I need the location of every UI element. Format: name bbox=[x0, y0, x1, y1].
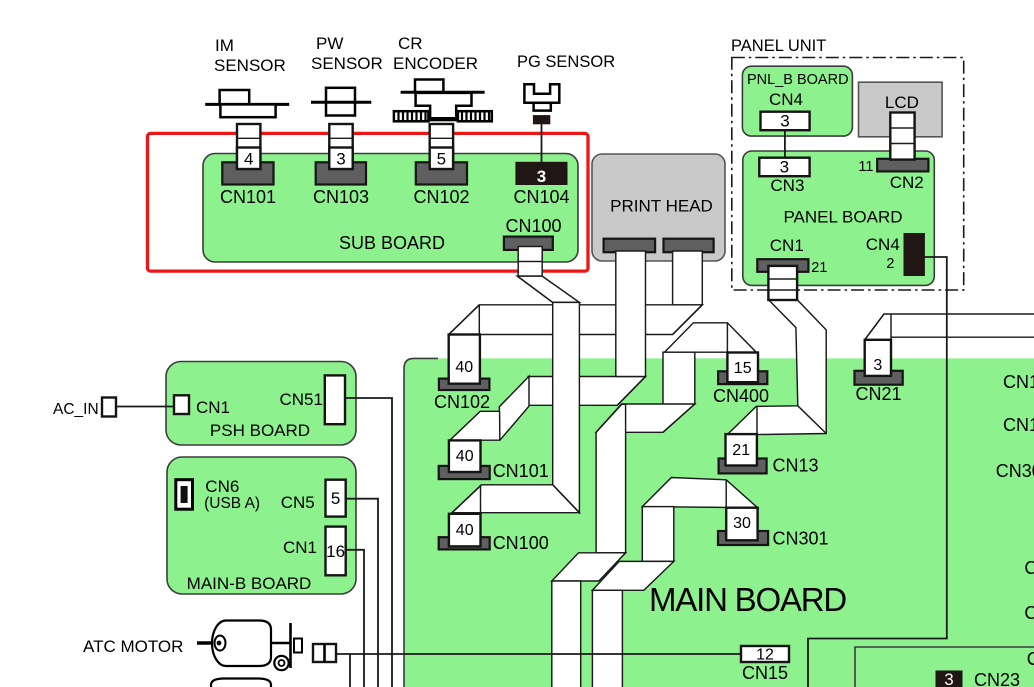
svg-text:PANEL BOARD: PANEL BOARD bbox=[783, 208, 902, 227]
svg-text:CN101: CN101 bbox=[220, 187, 276, 207]
svg-text:3: 3 bbox=[537, 167, 546, 186]
svg-text:CN400: CN400 bbox=[713, 386, 769, 406]
svg-text:40: 40 bbox=[456, 448, 474, 465]
svg-text:40: 40 bbox=[455, 359, 473, 376]
svg-text:CN102: CN102 bbox=[413, 187, 469, 207]
svg-text:12: 12 bbox=[756, 647, 774, 664]
svg-text:PSH BOARD: PSH BOARD bbox=[210, 421, 310, 440]
svg-text:MAIN BOARD: MAIN BOARD bbox=[649, 581, 846, 618]
svg-text:CN101: CN101 bbox=[493, 461, 549, 481]
svg-text:CN1: CN1 bbox=[1003, 372, 1034, 392]
svg-text:5: 5 bbox=[437, 150, 446, 169]
svg-text:3: 3 bbox=[336, 150, 345, 169]
svg-text:CN1: CN1 bbox=[283, 538, 317, 557]
svg-text:CN104: CN104 bbox=[513, 187, 569, 207]
svg-text:3: 3 bbox=[944, 670, 953, 687]
svg-text:SENSOR: SENSOR bbox=[311, 54, 383, 73]
svg-text:CN23: CN23 bbox=[974, 670, 1020, 687]
svg-text:ENCODER: ENCODER bbox=[393, 54, 478, 73]
svg-text:30: 30 bbox=[733, 515, 751, 532]
svg-text:MAIN-B BOARD: MAIN-B BOARD bbox=[187, 574, 312, 593]
svg-text:11: 11 bbox=[858, 159, 873, 175]
svg-text:CR: CR bbox=[398, 34, 423, 53]
svg-text:CN102: CN102 bbox=[434, 392, 490, 412]
svg-text:CN1: CN1 bbox=[196, 398, 230, 417]
svg-text:5: 5 bbox=[331, 489, 340, 508]
svg-text:PRINT HEAD: PRINT HEAD bbox=[610, 197, 713, 216]
svg-text:2: 2 bbox=[886, 256, 894, 272]
svg-text:16: 16 bbox=[326, 542, 345, 561]
svg-text:CN1: CN1 bbox=[770, 236, 804, 255]
svg-text:CN4: CN4 bbox=[866, 235, 900, 254]
svg-text:CN5: CN5 bbox=[281, 493, 315, 512]
svg-text:PG SENSOR: PG SENSOR bbox=[517, 53, 615, 71]
svg-text:CN3: CN3 bbox=[770, 176, 804, 195]
svg-text:PANEL UNIT: PANEL UNIT bbox=[731, 37, 826, 55]
svg-text:40: 40 bbox=[456, 522, 474, 539]
svg-text:C: C bbox=[1027, 649, 1034, 669]
svg-text:C: C bbox=[1024, 603, 1034, 623]
svg-text:CN301: CN301 bbox=[773, 529, 829, 549]
svg-text:CN100: CN100 bbox=[493, 533, 549, 553]
svg-text:CN2: CN2 bbox=[890, 173, 924, 192]
svg-text:CN21: CN21 bbox=[855, 384, 901, 404]
svg-text:CN51: CN51 bbox=[280, 390, 323, 409]
svg-text:CN6: CN6 bbox=[205, 477, 239, 496]
svg-text:CN1: CN1 bbox=[1003, 415, 1034, 435]
svg-text:3: 3 bbox=[873, 357, 882, 374]
svg-text:CN15: CN15 bbox=[742, 663, 788, 683]
svg-text:CN4: CN4 bbox=[769, 90, 803, 109]
svg-text:CN100: CN100 bbox=[505, 216, 561, 236]
svg-text:21: 21 bbox=[811, 260, 827, 276]
svg-text:3: 3 bbox=[780, 158, 789, 177]
svg-text:IM: IM bbox=[215, 36, 234, 55]
svg-text:SENSOR: SENSOR bbox=[214, 56, 286, 75]
svg-text:PNL_B BOARD: PNL_B BOARD bbox=[747, 72, 849, 88]
svg-text:ATC MOTOR: ATC MOTOR bbox=[83, 637, 183, 656]
svg-text:C: C bbox=[1024, 558, 1034, 578]
svg-text:3: 3 bbox=[780, 112, 789, 131]
svg-text:(USB A): (USB A) bbox=[204, 495, 260, 512]
svg-text:CN30: CN30 bbox=[996, 461, 1034, 481]
svg-text:21: 21 bbox=[732, 442, 750, 459]
svg-text:4: 4 bbox=[244, 150, 253, 169]
svg-text:CN103: CN103 bbox=[313, 187, 369, 207]
svg-text:PW: PW bbox=[316, 34, 343, 53]
svg-text:AC_IN: AC_IN bbox=[53, 401, 99, 418]
svg-text:15: 15 bbox=[734, 360, 752, 377]
svg-text:CN13: CN13 bbox=[773, 456, 819, 476]
svg-text:SUB BOARD: SUB BOARD bbox=[339, 233, 445, 253]
svg-text:LCD: LCD bbox=[885, 93, 919, 112]
